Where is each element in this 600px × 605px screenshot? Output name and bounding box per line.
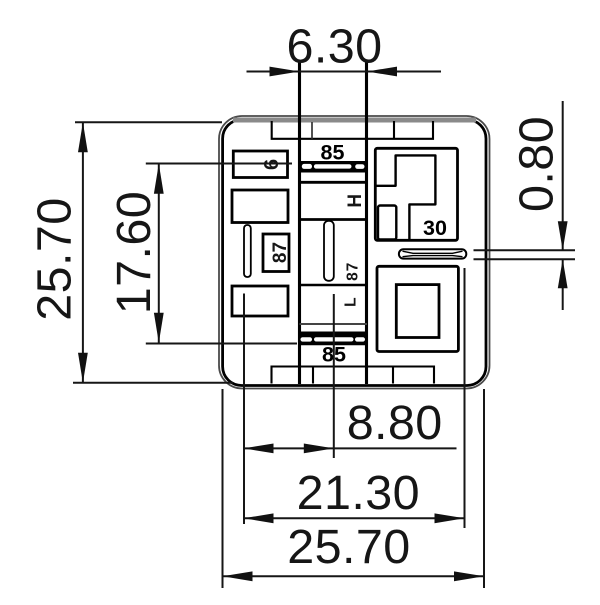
svg-text:85: 85 [321, 140, 345, 164]
svg-text:25.70: 25.70 [28, 197, 82, 320]
svg-text:L: L [343, 297, 360, 306]
svg-text:H: H [345, 194, 366, 208]
svg-text:0.80: 0.80 [510, 116, 564, 212]
svg-text:6.30: 6.30 [287, 20, 383, 74]
svg-text:25.70: 25.70 [287, 520, 410, 574]
svg-text:8.80: 8.80 [347, 396, 443, 450]
svg-text:87: 87 [270, 242, 291, 263]
svg-text:30: 30 [423, 216, 447, 240]
svg-text:21.30: 21.30 [297, 466, 420, 520]
svg-text:17.60: 17.60 [107, 191, 161, 314]
svg-text:87: 87 [345, 262, 362, 281]
